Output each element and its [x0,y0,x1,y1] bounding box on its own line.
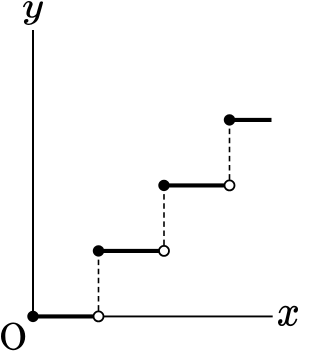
dashed connector 1 [98,257,100,311]
step segment 4 [230,118,272,122]
step segment 1 [33,314,99,318]
dashed connector 3 [229,126,231,180]
y-axis [32,30,34,316]
filled dot step 2 [93,245,104,256]
open circle step 2 [159,246,169,256]
label x [278,306,298,326]
step segment 3 [164,183,230,187]
step segment 2 [99,249,165,253]
label y [23,1,43,25]
x-axis [33,315,273,317]
filled dot step 4 [224,114,235,125]
open circle step 1 [94,311,104,321]
filled dot at origin [27,311,38,322]
dashed connector 2 [163,191,165,245]
filled dot step 3 [158,180,169,191]
label O [1,322,25,350]
open circle step 3 [225,180,235,190]
